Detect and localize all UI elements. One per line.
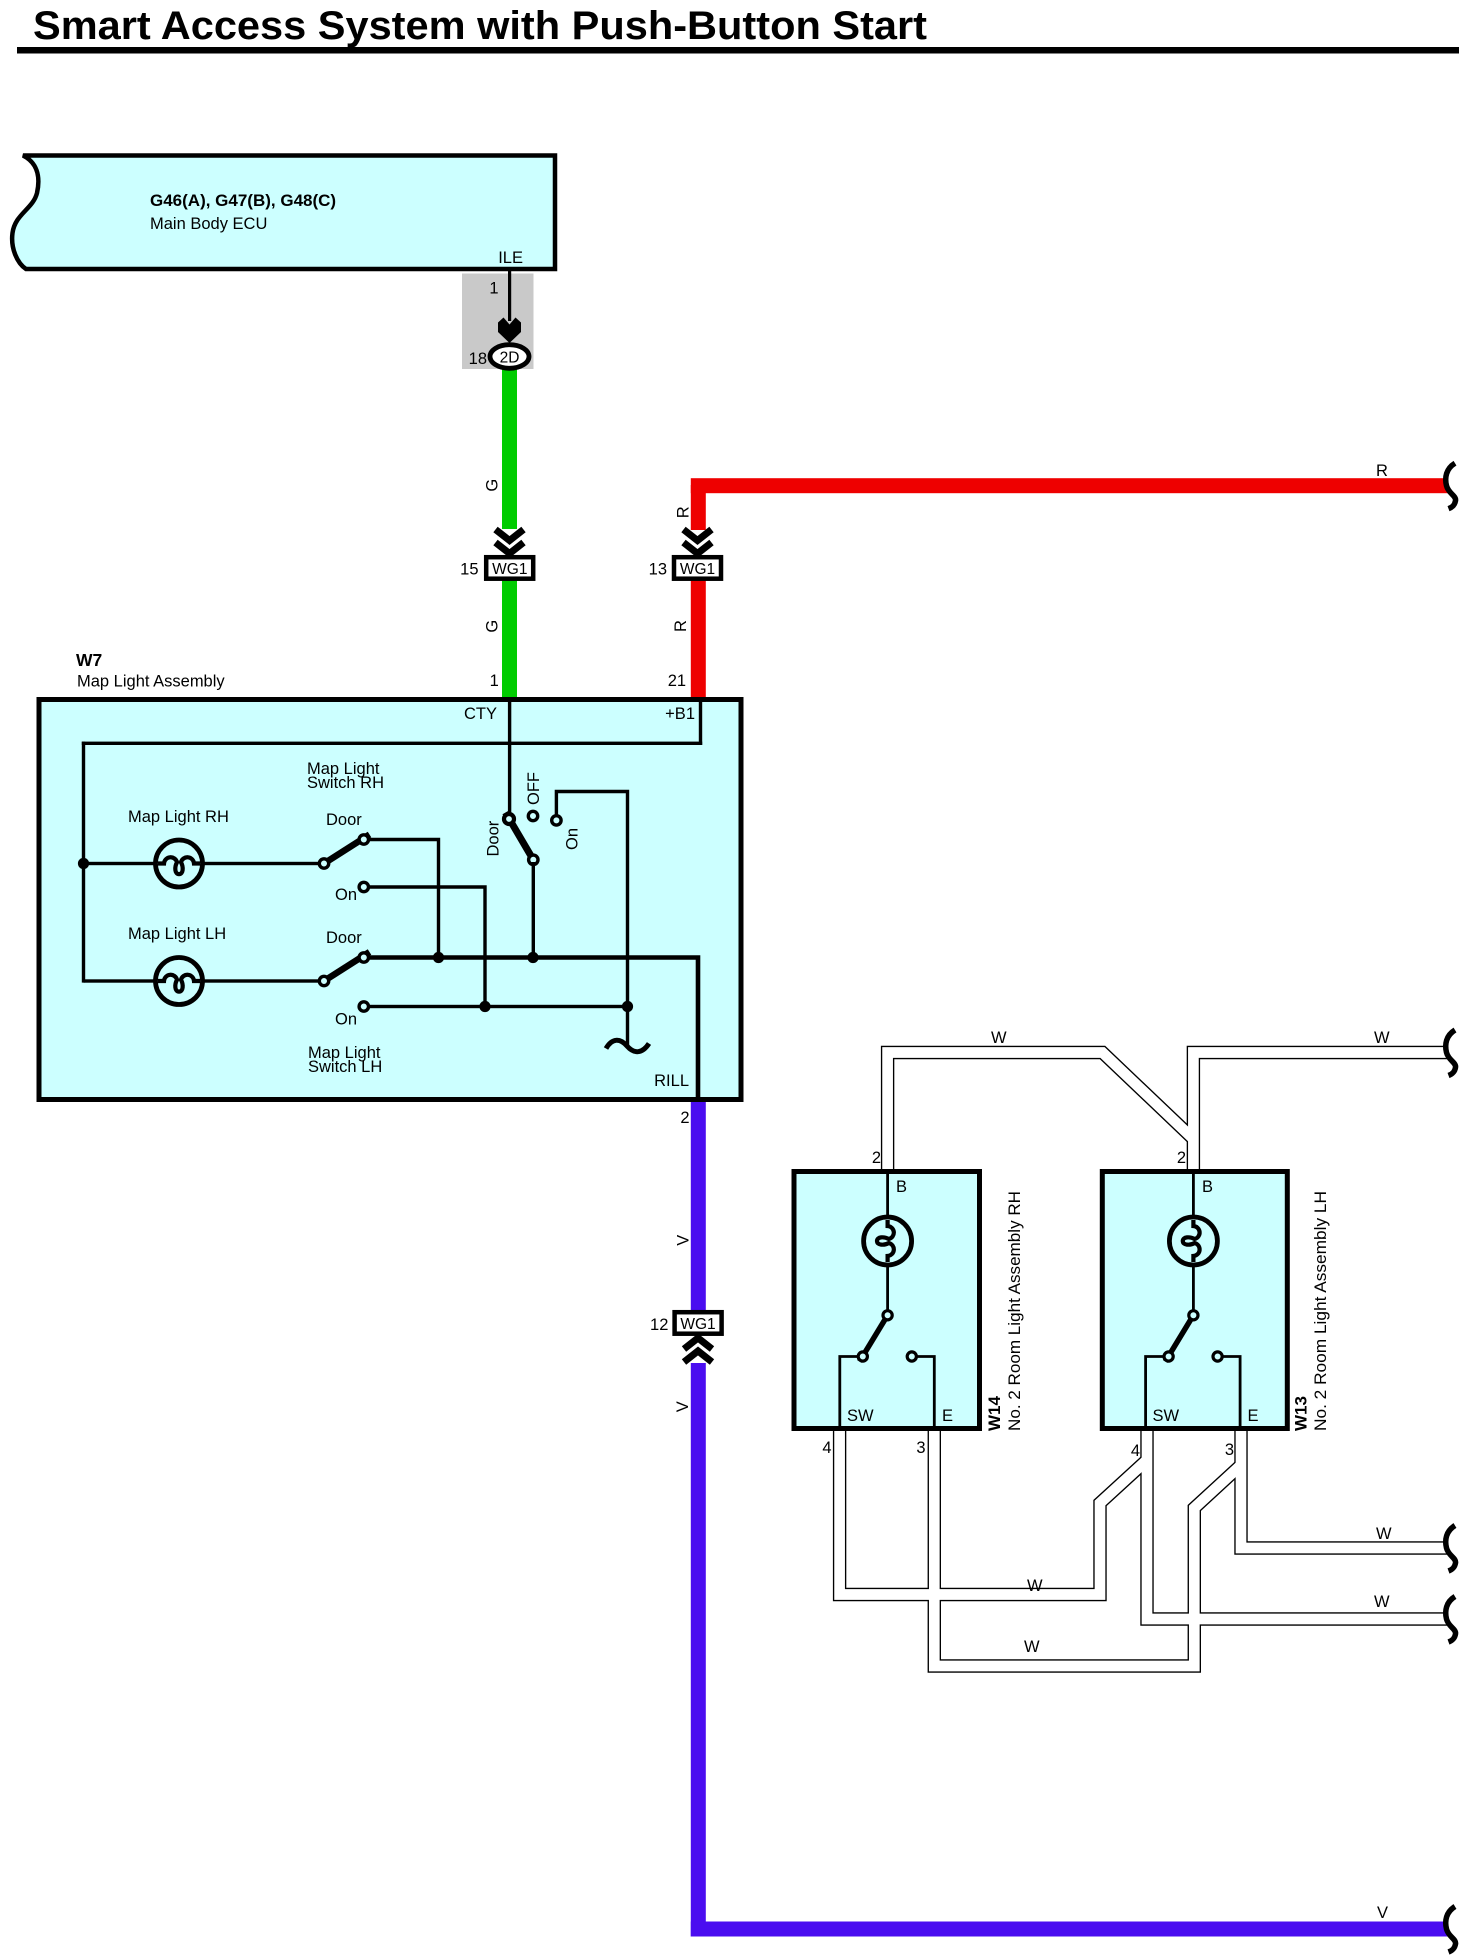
svg-text:R: R [672,620,690,632]
wire: CTY internal lead down to door contact [508,700,511,816]
W13 No.2 Room Light Assembly LH box [1102,1172,1287,1429]
switch Map Light Switch RH: blade [324,835,370,864]
svg-text:Switch RH: Switch RH [307,774,384,792]
wire: W13 lamp to switch lead [1192,1265,1195,1313]
svg-text:Door: Door [326,929,362,947]
svg-text:21: 21 [668,672,686,690]
svg-text:W: W [1374,1593,1390,1611]
svg-text:Map Light LH: Map Light LH [128,925,226,943]
wire: stub below On junction [626,1007,629,1047]
svg-text:W: W [1024,1638,1040,1656]
wire: violet V vertical from W7 pin 2 RILL down [691,1099,706,1311]
svg-text:SW: SW [847,1407,874,1425]
svg-text:2D: 2D [500,350,520,367]
connector arrow up into WG1 pin 12 [684,1338,712,1362]
rotary Door contact [504,814,514,824]
svg-text:WG1: WG1 [680,1316,715,1333]
svg-text:1: 1 [489,280,498,298]
svg-text:SW: SW [1153,1407,1180,1425]
connector WG1 pin 13 box [674,557,721,579]
W14 No.2 Room Light Assembly RH box [794,1172,980,1429]
svg-text:On: On [335,886,357,904]
wire: W13 E internal path [1222,1357,1240,1430]
wire break symbol: white W (SW net) right [1446,1597,1456,1643]
wire break symbol: white W top right [1446,1030,1456,1076]
switch W14 E contact [907,1352,916,1361]
wire: white W net of room light pin SW (black outlines) [840,1431,1448,1619]
switch W13 E contact [1213,1352,1222,1361]
wire: W14 SW internal path [840,1357,857,1430]
switch W14 hinge contact [858,1352,867,1361]
continuation squiggle [606,1040,649,1051]
splice 2D oval [490,345,529,369]
svg-text:W7: W7 [76,650,102,670]
wire: rotary On branch to LH On line [556,792,627,1007]
wire: map light RH feed [84,862,320,865]
svg-text:2: 2 [680,1109,689,1127]
svg-text:1: 1 [490,672,499,690]
wire: W14 E internal path [917,1357,935,1430]
connector arrow into WG1 pin 13 [684,530,712,554]
svg-text:E: E [1248,1407,1259,1425]
wire: W14 B internal lead [886,1172,889,1219]
svg-text:15: 15 [460,561,478,579]
svg-text:OFF: OFF [525,772,543,805]
svg-text:Map Light RH: Map Light RH [128,808,229,826]
wire: green G segment from splice 2D to connector WG1 pin 15 [502,368,517,529]
svg-text:G46(A), G47(B), G48(C): G46(A), G47(B), G48(C) [150,191,336,210]
svg-text:G: G [484,479,502,492]
switch LH On contact [359,1002,368,1011]
svg-text:W: W [1374,1029,1390,1047]
Main Body ECU box G46/G47/G48 (torn left edge) [12,156,555,270]
svg-text:On: On [335,1011,357,1029]
switch LH hinge contact [319,976,328,985]
svg-text:18: 18 [469,350,487,368]
svg-text:4: 4 [1131,1442,1140,1460]
svg-text:R: R [675,506,693,518]
wire: RH On contact line [368,887,485,1007]
svg-text:CTY: CTY [464,705,497,723]
rotary pole contact [529,855,538,864]
svg-text:B: B [896,1178,907,1196]
W7 Map Light Assembly box [39,700,741,1100]
wire: W13 B internal lead [1192,1172,1195,1219]
svg-text:Door: Door [326,811,362,829]
svg-text:On: On [564,828,582,850]
svg-text:2: 2 [1177,1149,1186,1167]
connector WG1 pin 15 box [486,557,533,579]
svg-text:G: G [484,620,502,633]
junction at lamp RH feed [78,858,89,869]
svg-text:3: 3 [916,1439,925,1457]
wire: red R horizontal feed from right edge [691,478,1448,493]
wire: rotary pole lead down [532,862,535,958]
svg-text:RILL: RILL [654,1072,689,1090]
svg-text:W13: W13 [1292,1396,1311,1431]
wire: map light LH feed [84,979,320,982]
svg-text:B: B [1202,1178,1213,1196]
wire: green G segment from WG1 to W7 pin 1 CTY [502,580,517,700]
svg-text:W14: W14 [985,1396,1004,1432]
rotary OFF contact [528,811,537,820]
wire break symbol: violet V bottom right [1446,1907,1456,1953]
wire: W14 lamp to switch lead [886,1265,889,1313]
connector arrow into WG1 pin 15 [496,530,524,554]
wire: violet V horizontal run to right edge [691,1922,1448,1937]
switch RH hinge contact [319,859,328,868]
rotary On contact [552,816,561,825]
switch W13: blade [1165,1317,1192,1362]
svg-text:W: W [991,1029,1007,1047]
wire: white W fills (drawn over outlines) [840,1053,1448,1667]
wire: white W net of room light pin B (black outlines) [888,1053,1448,1170]
wire: white W net of room light pin E (black outlines) [934,1431,1448,1666]
svg-text:2: 2 [872,1149,881,1167]
svg-text:13: 13 [649,561,667,579]
switch W14: blade [860,1317,887,1362]
title underline rule [17,47,1459,54]
svg-text:12: 12 [650,1316,668,1334]
wire: W13 SW internal path [1146,1357,1163,1430]
lamp W14 room light bulb [864,1217,912,1265]
lamp Map Light LH [156,958,203,1005]
svg-text:No. 2 Room Light Assembly LH: No. 2 Room Light Assembly LH [1312,1191,1330,1431]
svg-text:E: E [942,1407,953,1425]
wire break symbol: white W (E net) right [1446,1526,1456,1572]
switch Map Light Switch LH: blade [324,952,370,981]
lamp Map Light RH [156,840,203,887]
svg-text:Main Body ECU: Main Body ECU [150,215,267,233]
switch RH On contact [359,882,368,891]
junction dots [433,952,444,963]
switch W13 hinge contact [1164,1352,1173,1361]
svg-text:W: W [1027,1577,1043,1595]
wire: LH On contact line [368,1005,627,1008]
svg-text:W: W [1376,1525,1392,1543]
wire: +B1 feed across to lamps [82,742,702,745]
svg-text:V: V [675,1235,693,1246]
switch W14 top contact [883,1311,892,1320]
svg-text:Map Light Assembly: Map Light Assembly [77,673,225,691]
switch W13 top contact [1189,1311,1198,1320]
svg-text:No. 2 Room Light Assembly RH: No. 2 Room Light Assembly RH [1006,1191,1024,1431]
splice connector block (gray) [462,274,534,370]
svg-text:3: 3 [1225,1441,1234,1459]
svg-text:4: 4 [822,1439,831,1457]
svg-text:WG1: WG1 [680,561,715,578]
switch RH Door contact [359,835,368,844]
svg-text:V: V [1377,1904,1388,1922]
wire break symbol: red R at right edge [1446,463,1456,509]
svg-text:Smart Access System with Push-: Smart Access System with Push-Button Sta… [33,4,927,48]
svg-text:+B1: +B1 [665,705,695,723]
wire: left vertical lamp feed [82,742,85,983]
wire: black pin lead from ILE [508,271,511,321]
splice arrow [498,318,521,344]
svg-text:ILE: ILE [498,249,523,267]
svg-text:Door: Door [485,820,503,856]
switch LH Door contact [359,953,368,962]
connector WG1 pin 12 box [675,1312,722,1334]
svg-text:WG1: WG1 [492,561,527,578]
wire: RH Door contact line [369,840,439,958]
wire: +B1 internal lead [699,700,702,745]
wire: red R segment from WG1 to W7 pin 21 +B1 [691,580,706,700]
wire: LH Door line (bold) to RILL [369,958,699,1100]
lamp W13 room light bulb [1169,1217,1217,1265]
svg-text:V: V [674,1401,692,1412]
svg-text:Switch LH: Switch LH [308,1058,382,1076]
rotary switch: blade Door position [506,813,534,860]
wire: red R vertical drop to connector WG1 pin 13 [691,485,706,530]
svg-text:R: R [1376,462,1388,480]
